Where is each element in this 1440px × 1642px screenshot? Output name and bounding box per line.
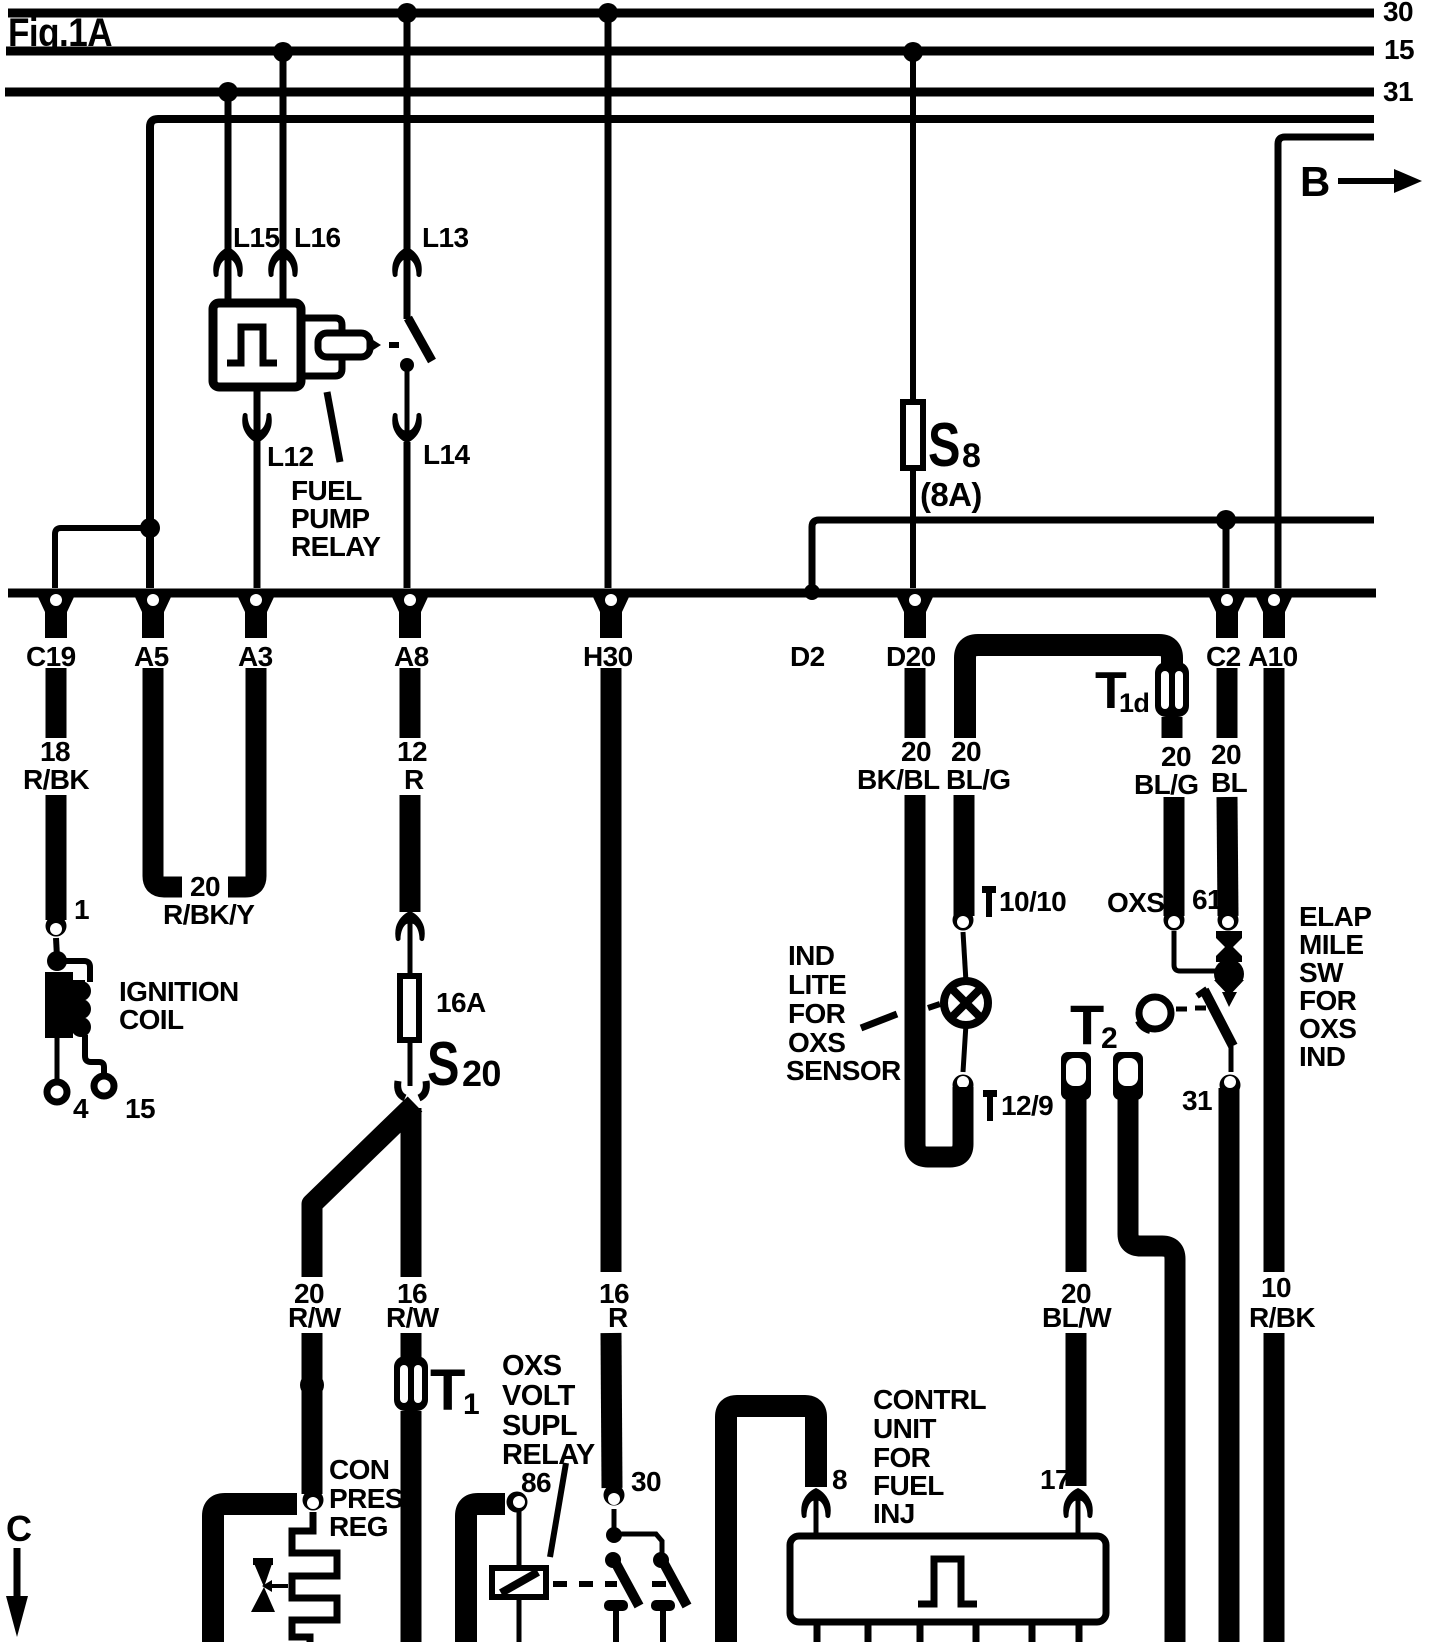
link to right contact	[614, 1534, 662, 1556]
OXS indicator lamp	[944, 981, 988, 1025]
svg-text:S: S	[928, 411, 960, 480]
svg-text:PRES: PRES	[329, 1483, 403, 1514]
junction dot at coil	[47, 951, 67, 971]
wire to lamp	[963, 932, 966, 982]
wire bus15 to L16	[280, 52, 287, 305]
wire H30 upper	[601, 668, 622, 1272]
svg-text:FOR: FOR	[788, 998, 846, 1029]
junction dot second rail / C2	[1216, 510, 1236, 530]
svg-text:86: 86	[521, 1467, 551, 1498]
svg-text:SENSOR: SENSOR	[786, 1055, 901, 1086]
connector C2	[1209, 589, 1245, 638]
connector H30	[593, 589, 629, 638]
junction dot on R/W wire	[300, 1373, 324, 1397]
svg-text:10/10: 10/10	[999, 886, 1066, 917]
leader line relay	[550, 1463, 566, 1557]
svg-text:R/BK/Y: R/BK/Y	[163, 899, 255, 930]
connector A10	[1256, 589, 1292, 638]
svg-text:C: C	[6, 1508, 32, 1549]
heater winding (meander)	[292, 1512, 337, 1642]
connector D20	[897, 589, 933, 638]
coil lead to terminal 15	[85, 1035, 104, 1076]
svg-text:1: 1	[74, 894, 89, 925]
terminal 86 ring	[507, 1492, 528, 1513]
svg-text:A8: A8	[394, 641, 429, 672]
svg-text:R/W: R/W	[386, 1302, 440, 1333]
wire 31 to bottom	[1219, 1088, 1240, 1642]
svg-text:CONTRL: CONTRL	[873, 1384, 987, 1415]
wire bus31 to L15	[225, 92, 232, 305]
junction dot bus30/H30	[598, 3, 618, 23]
left fixed contact	[604, 1600, 628, 1611]
terminal T12/9 ring	[953, 1075, 974, 1096]
svg-text:BL/W: BL/W	[1042, 1302, 1112, 1333]
wire L12 to rail	[254, 387, 261, 588]
junction dot D2 on rail	[804, 584, 820, 600]
junction bracket to C19	[55, 528, 150, 588]
junction dot bus31/L15	[218, 82, 238, 102]
pilot circle of mileage switch	[1139, 997, 1171, 1029]
svg-text:12: 12	[397, 736, 427, 767]
wire T1d to OXS	[1164, 797, 1185, 916]
connector arrow pin 17	[1063, 1488, 1093, 1518]
svg-text:FUEL: FUEL	[873, 1470, 944, 1501]
right contact blade	[653, 1552, 669, 1568]
wire A5	[153, 668, 182, 887]
wire 30 to contacts	[612, 1509, 617, 1530]
wire BL/G to T10/10	[954, 795, 975, 916]
svg-text:2: 2	[1101, 1022, 1117, 1055]
wire T1d stub	[1162, 717, 1183, 738]
coil primary hook	[57, 961, 90, 982]
svg-text:A10: A10	[1248, 641, 1298, 672]
svg-text:SUPL: SUPL	[502, 1410, 577, 1442]
relay plug bracket	[303, 318, 342, 376]
leader line fuel pump relay	[327, 392, 340, 462]
wire fuse to S20	[408, 1040, 413, 1086]
wire to coil	[56, 938, 57, 957]
dashed actuation to blade	[1176, 1007, 1187, 1012]
bus 30 (battery +)	[8, 9, 1374, 18]
connector cup S20	[398, 1081, 427, 1098]
svg-text:OXS: OXS	[502, 1350, 562, 1382]
terminal 30 ring	[604, 1485, 625, 1506]
leader dashes to lamp	[861, 1014, 897, 1028]
wire 86 to coil	[517, 1510, 522, 1568]
wire bus30 to switch L13	[404, 13, 411, 319]
n-bar BL/G to T1d	[965, 645, 1172, 738]
svg-text:17: 17	[1040, 1464, 1070, 1495]
svg-text:20: 20	[1211, 739, 1241, 770]
svg-text:8: 8	[832, 1464, 847, 1495]
connector T2 pin right	[1113, 1052, 1143, 1100]
wire T2 right with bend	[1128, 1098, 1175, 1642]
connector A8	[392, 589, 428, 638]
svg-text:L16: L16	[294, 222, 340, 253]
junction dot relay contacts	[606, 1527, 622, 1543]
wire to fuse 16A	[408, 914, 413, 976]
svg-text:REG: REG	[329, 1511, 388, 1542]
wire H30 lower	[611, 1333, 612, 1488]
second rail (D2 feed)	[812, 520, 1374, 591]
wire to C2 connector	[1223, 520, 1230, 588]
svg-text:8: 8	[962, 437, 980, 475]
svg-text:T: T	[430, 1358, 465, 1423]
svg-text:BL/G: BL/G	[1134, 769, 1198, 800]
dashed actuation line	[553, 1581, 567, 1587]
main rail	[8, 589, 1376, 598]
control unit pins	[814, 1622, 821, 1642]
wire S20 to T1 branch	[401, 1108, 422, 1277]
wire lamp to T12/9	[963, 1024, 966, 1072]
arrow to B (off page)	[1338, 178, 1398, 184]
control unit box U1	[790, 1536, 1106, 1622]
svg-text:OXS: OXS	[1299, 1013, 1356, 1044]
connector arrow L14	[392, 413, 422, 443]
svg-text:R/W: R/W	[288, 1302, 342, 1333]
svg-text:ELAP: ELAP	[1299, 901, 1371, 932]
svg-text:R/BK: R/BK	[23, 764, 89, 795]
svg-text:S: S	[427, 1030, 459, 1099]
svg-text:T: T	[1070, 993, 1104, 1056]
wire S20 diagonal to R/W 20	[312, 1104, 415, 1277]
svg-text:IND: IND	[1299, 1041, 1346, 1072]
connector arrow to fuse	[395, 911, 425, 941]
svg-text:MILE: MILE	[1299, 929, 1363, 960]
wire B takeoff	[1278, 137, 1374, 588]
terminal T10/10 ring	[953, 910, 974, 931]
svg-text:1: 1	[463, 1388, 479, 1421]
ignition coil body	[45, 972, 73, 1038]
svg-text:61: 61	[1192, 884, 1222, 915]
pulse symbol in control unit	[918, 1559, 977, 1604]
fuse S20 16A	[400, 976, 419, 1040]
svg-text:C2: C2	[1206, 641, 1241, 672]
wire C2 upper	[1217, 668, 1238, 738]
valve symbol	[253, 1561, 273, 1587]
mileage switch blade	[1204, 990, 1233, 1046]
terminal 4 ring	[47, 1082, 67, 1102]
bus 31 (ground)	[5, 88, 1374, 97]
connector T2 pin left	[1061, 1052, 1091, 1100]
elapsed mileage counter symbol	[1216, 931, 1242, 962]
svg-text:VOLT: VOLT	[502, 1380, 576, 1412]
svg-text:Fig.1A: Fig.1A	[8, 11, 112, 55]
arrow C (off page down)	[14, 1548, 21, 1600]
junction dot bus15/S8	[903, 42, 923, 62]
valve arrow	[270, 1584, 288, 1588]
svg-text:R: R	[404, 764, 424, 795]
wire 8 n-bend	[726, 1406, 816, 1642]
connector arrow pin 8	[801, 1488, 831, 1518]
svg-text:IGNITION: IGNITION	[119, 976, 239, 1007]
svg-text:SW: SW	[1299, 957, 1344, 988]
wire T1 to bottom	[401, 1411, 422, 1642]
svg-text:FUEL: FUEL	[291, 475, 362, 506]
svg-text:R: R	[608, 1302, 628, 1333]
svg-text:H30: H30	[583, 641, 633, 672]
svg-text:OXS: OXS	[788, 1027, 845, 1058]
svg-text:UNIT: UNIT	[873, 1413, 936, 1444]
feed wire (4th horizontal line)	[150, 119, 1374, 588]
pulse symbol in relay	[227, 327, 277, 363]
wire 20 R/W lower	[302, 1333, 323, 1494]
svg-text:12/9: 12/9	[1001, 1090, 1053, 1121]
svg-text:BL: BL	[1211, 767, 1248, 798]
svg-text:20: 20	[462, 1053, 501, 1094]
svg-text:16A: 16A	[436, 987, 486, 1018]
svg-text:IND: IND	[788, 940, 835, 971]
svg-text:10: 10	[1261, 1272, 1291, 1303]
svg-text:INJ: INJ	[873, 1498, 915, 1529]
connector T1d	[1155, 662, 1189, 717]
svg-text:D20: D20	[886, 641, 936, 672]
wire 16 R/W to T1	[401, 1333, 422, 1360]
relay plug pin	[318, 333, 370, 357]
wire D20 lower + U-bend to T12/9	[915, 795, 963, 1157]
svg-text:FOR: FOR	[1299, 985, 1357, 1016]
wire blade to 31	[1229, 1046, 1234, 1072]
wire switch to L14	[405, 365, 410, 442]
svg-text:20: 20	[951, 736, 981, 767]
wire bus15 to fuse S8	[910, 52, 916, 588]
connector C19	[38, 589, 74, 638]
svg-text:B: B	[1300, 158, 1330, 205]
connector A3	[238, 589, 274, 638]
svg-text:L12: L12	[267, 441, 313, 472]
coil lead down	[517, 1597, 522, 1642]
terminal OXS ring	[1164, 910, 1185, 931]
wire D20 upper	[905, 668, 926, 738]
connector arrow L13	[392, 247, 422, 277]
junction dot bus30/L13	[397, 3, 417, 23]
wire L14 to rail	[404, 442, 411, 588]
wire A3 to U-bend	[228, 668, 256, 887]
relay coil	[492, 1568, 546, 1597]
svg-text:30: 30	[631, 1466, 661, 1497]
bus 15 (ignition)	[6, 47, 1374, 56]
svg-text:PUMP: PUMP	[291, 503, 370, 534]
wire C2 to 61	[1227, 797, 1228, 916]
connector arrow L15	[213, 247, 243, 277]
svg-text:RELAY: RELAY	[291, 531, 381, 562]
wire A8 upper	[400, 668, 421, 738]
svg-text:CON: CON	[329, 1454, 389, 1485]
junction dot below switch	[400, 358, 414, 372]
wire A10 to bottom	[1264, 1333, 1285, 1642]
svg-text:C19: C19	[26, 641, 76, 672]
svg-text:COIL: COIL	[119, 1004, 184, 1035]
coil lead to terminal 4	[55, 1038, 60, 1082]
svg-text:31: 31	[1182, 1085, 1212, 1116]
wire A10 long	[1264, 668, 1285, 1272]
svg-text:D2: D2	[790, 641, 825, 672]
svg-text:BK/BL: BK/BL	[857, 764, 940, 795]
terminal 15 ring	[94, 1076, 114, 1096]
svg-text:L14: L14	[423, 439, 470, 470]
svg-text:4: 4	[73, 1093, 89, 1124]
svg-text:30: 30	[1383, 0, 1413, 27]
junction dot bus15/L16	[273, 42, 293, 62]
svg-text:(8A): (8A)	[920, 476, 982, 513]
svg-text:15: 15	[1384, 34, 1414, 65]
wire 86 bracket	[466, 1504, 505, 1642]
connector arrow L12	[242, 413, 272, 443]
svg-text:18: 18	[40, 736, 70, 767]
connector arrow L16	[268, 247, 298, 277]
svg-text:20: 20	[901, 736, 931, 767]
wire C19 upper	[46, 668, 67, 738]
wire BL/W lower	[1066, 1333, 1087, 1486]
connector A5	[135, 589, 171, 638]
svg-text:A3: A3	[238, 641, 273, 672]
dashed link plug to switch	[389, 342, 399, 348]
switch blade L13/L14	[408, 318, 432, 361]
svg-text:R/BK: R/BK	[1249, 1302, 1315, 1333]
svg-text:BL/G: BL/G	[946, 764, 1010, 795]
fuel pump relay box	[213, 303, 301, 387]
left contact blade	[605, 1552, 621, 1568]
svg-text:L15: L15	[233, 222, 279, 253]
wire C19 lower	[46, 795, 67, 920]
fuse S8	[903, 402, 923, 468]
svg-text:A5: A5	[134, 641, 169, 672]
wire OXS to counter	[1174, 931, 1216, 971]
right fixed contact	[651, 1600, 675, 1611]
svg-text:FOR: FOR	[873, 1442, 931, 1473]
wire A8 lower	[400, 795, 421, 912]
svg-text:31: 31	[1383, 76, 1413, 107]
wire bracket pressure regulator	[213, 1504, 297, 1642]
svg-text:LITE: LITE	[788, 969, 846, 1000]
connector T1	[394, 1356, 428, 1411]
svg-text:OXS: OXS	[1107, 887, 1164, 918]
terminal ring pressure regulator	[303, 1490, 324, 1511]
svg-text:1d: 1d	[1119, 688, 1149, 718]
terminal 61 ring	[1218, 910, 1239, 931]
svg-text:15: 15	[125, 1093, 155, 1124]
wire T2 left (BL/W)	[1066, 1098, 1087, 1272]
junction dot A5 feed	[140, 518, 160, 538]
svg-text:20: 20	[190, 871, 220, 902]
wire bus30 to H30	[605, 13, 612, 588]
terminal 31 ring	[1220, 1075, 1241, 1096]
terminal 1 ring	[46, 916, 67, 937]
svg-text:L13: L13	[422, 222, 468, 253]
svg-text:20: 20	[1161, 741, 1191, 772]
